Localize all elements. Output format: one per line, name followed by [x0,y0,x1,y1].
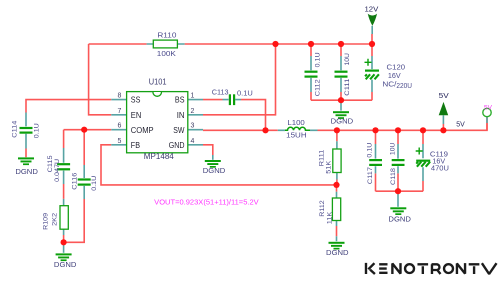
svg-text:10U: 10U [344,53,351,66]
svg-text:4: 4 [191,138,195,145]
pin stub 5V port stem [486,117,488,123]
pin stub gnd left bottom [63,242,65,253]
svg-text:EN: EN [131,110,142,120]
capacitor C113 plates [229,94,231,105]
svg-text:C112: C112 [314,79,321,96]
wire IN riser to 12V rail [203,44,276,115]
pin stubs R111 [336,141,338,179]
wire COMP left [64,129,112,131]
port 5V circle [483,108,491,116]
wire 12V stem [371,34,373,44]
capacitor C118 plates [392,159,405,161]
svg-text:DGND: DGND [326,248,349,257]
node COMP junction [81,127,87,133]
svg-text:5: 5 [118,138,122,145]
svg-text:0.1U: 0.1U [367,143,374,158]
wire bottom rail C112-C120 [311,99,372,101]
pin stub gnd of C118 [397,191,399,207]
svg-text:1: 1 [191,93,195,100]
resistor R110 [153,40,177,48]
node 5V arrow [440,127,446,133]
C120 plus sign [365,59,372,66]
pin stubs C115 [63,148,65,184]
wire EN riser from top rail [89,44,112,115]
node FB divider [333,182,339,188]
svg-text:COMP: COMP [131,125,154,135]
svg-text:R112: R112 [319,200,326,217]
svg-text:8: 8 [118,93,122,100]
svg-text:C118: C118 [390,168,397,185]
wire 5V arrow stem lower [442,124,444,130]
svg-text:16V: 16V [388,73,401,80]
pin stubs U101 right [188,100,203,145]
svg-text:DGND: DGND [203,166,226,175]
pin stubs R110 [147,43,185,45]
svg-text:C113: C113 [212,90,229,97]
pin stubs R109 [63,199,65,235]
power 5V arrow [439,102,449,115]
wire C116 chain [64,130,85,243]
pin stub 5V arrow stem [442,115,444,124]
svg-text:C116: C116 [72,172,79,189]
svg-text:3: 3 [191,123,195,130]
pin stubs C120 [371,56,373,92]
svg-text:220U: 220U [396,83,412,90]
node C111 bottom [338,97,344,103]
wire C115 chain [63,130,65,243]
svg-text:51K: 51K [325,160,332,174]
C119 plus sign [416,148,423,155]
svg-text:U101: U101 [149,78,167,87]
wire C118 drop [397,130,399,191]
pin stub gnd of U101 [212,155,214,160]
ground below C111 [333,111,349,113]
wire SS to C114 [26,100,111,113]
wire BS to C113 [203,99,223,101]
svg-text:GND: GND [169,140,185,150]
capacitor C112 plates [305,71,318,73]
svg-text:12V: 12V [365,7,379,14]
power 12V arrow [368,14,377,26]
node C118 bottom [395,188,401,194]
svg-text:C111: C111 [344,78,351,95]
svg-text:FB: FB [131,140,140,150]
svg-text:MP1484: MP1484 [144,152,175,161]
wire GND pin to ground [203,145,213,155]
svg-text:BS: BS [175,95,185,105]
node R111 top [334,127,340,133]
svg-text:5V: 5V [439,93,449,100]
svg-text:SW: SW [173,125,185,135]
capacitor C117 plates [369,159,382,161]
capacitor C115 plates [57,163,70,165]
svg-text:15UH: 15UH [286,132,306,139]
svg-text:DGND: DGND [388,214,411,223]
wire FB down and right to divider [101,145,337,185]
pin stub 12V stem [371,26,373,34]
wire SW to L100 [203,129,278,131]
wire C117 drop [375,130,377,191]
capacitor C116 plates [78,178,91,180]
wire 5V port stem lower [486,123,488,130]
ground below R112 [329,242,345,244]
pin stub gnd of C111 [340,100,342,110]
svg-text:5V: 5V [456,121,465,128]
svg-text:0.047U: 0.047U [54,159,61,182]
wire 5V rail [318,117,488,131]
ground below C114 [18,157,34,159]
svg-text:C120: C120 [387,65,406,72]
U101 notch [153,92,162,96]
ground below R109/C116 [56,253,72,255]
svg-text:DGND: DGND [54,260,77,269]
svg-text:IN: IN [177,110,185,120]
op-amp U101 body [127,92,188,153]
wire bottom rail C117-C119 [376,190,424,192]
pin stubs C114 [25,113,27,149]
pin stubs C113 [223,99,242,101]
wire top rail left of R110 [89,43,147,45]
pin stubs C119 [422,144,424,181]
svg-text:0.1U: 0.1U [314,52,321,67]
svg-text:R110: R110 [157,33,176,40]
capacitor C120 polarized plates [365,70,379,72]
capacitor C111 plates [335,71,348,73]
node R109 bottom [61,239,67,245]
capacitor C114 plates [20,127,33,129]
node C111 top [338,41,344,47]
svg-text:11K: 11K [326,211,333,224]
wire C111 drop [340,44,342,100]
svg-text:0.1U: 0.1U [237,90,253,97]
svg-text:470U: 470U [431,165,449,172]
resistor R111 [333,149,341,173]
svg-text:10U: 10U [390,142,397,155]
svg-text:6: 6 [118,123,122,130]
wire C119 drop [422,130,424,191]
pin stubs C116 [83,165,85,199]
svg-text:L100: L100 [287,120,305,127]
svg-text:0.1U: 0.1U [91,176,98,191]
node C119 top [420,127,426,133]
pin stubs C117 [375,144,377,173]
svg-text:5V: 5V [484,104,493,111]
svg-text:SS: SS [131,95,141,105]
node SW / C113 [262,127,268,133]
pin stubs C112 [310,56,312,92]
resistor R109 [60,206,68,230]
svg-text:2K2: 2K2 [52,213,59,226]
svg-text:C114: C114 [12,120,19,137]
wire C113 to SW riser [241,100,266,131]
svg-text:0.1U: 0.1U [33,123,40,138]
wire R111 stubs [336,130,338,185]
svg-text:NC/: NC/ [382,82,396,89]
pin stubs R112 [336,192,338,241]
node C118 top [395,127,401,133]
svg-text:VOUT=0.923X(51+11)/11=5.2V: VOUT=0.923X(51+11)/11=5.2V [154,200,259,207]
logo KENOTRONTV [366,263,497,274]
svg-text:R109: R109 [42,213,49,230]
pin stubs L100 [278,129,318,131]
wire top rail right of R110 [185,43,372,45]
pin stubs C111 [340,56,342,92]
ground below U101 GND pin [205,160,221,162]
svg-text:C117: C117 [367,167,374,184]
svg-text:2: 2 [191,108,195,115]
svg-text:7: 7 [118,108,122,115]
wire R112 stubs [336,185,338,236]
node C117 top [372,127,378,133]
node top rail / IN riser [272,41,278,47]
svg-text:DGND: DGND [331,117,354,126]
capacitor C119 polarized plates [416,160,430,162]
wire C120 drop [371,44,373,100]
svg-text:100K: 100K [157,51,176,58]
pin stubs U101 left [111,100,126,145]
node C112 top [308,41,314,47]
wire C112 drop [310,44,312,100]
inductor L100 [285,127,310,130]
resistor R112 [332,198,340,221]
ground below C118 [390,207,406,209]
node 12V / C120 [369,41,375,47]
svg-text:DGND: DGND [15,167,38,176]
pin stubs C118 [397,144,399,173]
wire C114 gnd stem [25,149,27,158]
